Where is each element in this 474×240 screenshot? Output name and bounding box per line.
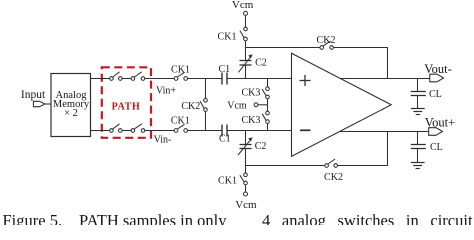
svg-text:Input: Input [21,89,46,101]
svg-text:C1: C1 [219,134,231,145]
wire CK1 to C1 top [188,78,222,80]
wire C2 bottom from Vin- rail [245,131,247,145]
wire CK1 to Vcm terminal [245,185,247,192]
wire C1 to op-amp plus input [227,78,292,80]
wire between PATH S1 and S2 [122,78,131,80]
wire C1 to op-amp minus input [227,130,292,132]
wire Vin+ rail from memory block [91,78,110,80]
switch CK1 (bottom Vcm branch) [218,173,247,187]
switch CK3 (top) [241,87,269,99]
svg-text:× 2: × 2 [64,108,78,119]
op-amp U1 [292,53,392,156]
svg-text:CL: CL [429,89,442,100]
switch PATH S3 [110,124,123,133]
wire CK3 branch lower [267,123,269,130]
wire PATH S2 to switch CK1 top [145,78,174,80]
svg-text:CL: CL [430,142,443,153]
svg-text:Vcm: Vcm [235,199,257,211]
switch CK2 (input shunt) [181,99,207,112]
switch PATH S1 [110,72,123,80]
wire Vout- output [340,78,430,80]
wire CK3 branch upper [267,79,269,87]
wire bottom feedback to output [338,132,388,166]
switch CK2 (top feedback) [317,35,336,49]
wire CK2 shunt upper [205,79,207,99]
wire bottom feedback [246,165,325,167]
svg-text:Vin-: Vin- [154,135,172,146]
figure caption [3,211,473,230]
wire Vout+ output [341,131,429,133]
switch CK1 (Vin- rail) [171,116,190,133]
wire CK1 to C2 top with feedback tee [245,41,247,61]
capacitor C2 variable (bottom) [238,137,266,155]
ground (top CL) [411,96,425,115]
wire C2 to Vin+ rail [245,65,247,79]
svg-text:CK2: CK2 [317,35,336,46]
switch CK1 (top Vcm branch) [218,27,248,42]
Vcm terminal (top) [244,11,248,15]
svg-text:PATH samples in only: PATH samples in only [79,211,227,225]
svg-text:C2: C2 [255,141,267,152]
Vcm terminal (bottom) [244,192,248,196]
capacitor C1 (top) [218,64,230,85]
svg-text:CK2: CK2 [181,101,200,112]
input port Input [21,89,46,107]
switch CK1 (Vin+ rail) [171,64,190,80]
svg-text:CK1: CK1 [171,116,190,127]
wire Vin- rail from memory block [91,130,110,132]
block U0 Analog Memory x2 [51,74,91,137]
wire C2 to CK1 with feedback tee [245,149,247,174]
svg-text:4 analog switches in circuit: 4 analog switches in circuit [262,211,473,225]
svg-text:CK1: CK1 [218,32,237,43]
wire CK2 shunt lower [205,111,207,130]
output port Vout- [424,62,452,82]
svg-text:C1: C1 [218,64,230,75]
svg-text:CK3: CK3 [241,88,260,99]
switch CK2 (bottom feedback) [324,159,343,183]
svg-text:CK1: CK1 [171,64,190,75]
wire CK1 to C1 bottom [188,130,222,132]
svg-text:PATH: PATH [112,102,141,113]
ground (bottom CL) [411,149,425,169]
PATH block dashed outline [102,67,151,138]
svg-text:Vin+: Vin+ [156,86,176,97]
wire top feedback [246,47,320,49]
wire between CK3 switches [267,99,269,111]
capacitor C2 variable (top) [239,54,267,72]
switch CK3 (bottom) [241,111,269,126]
svg-text:CK1: CK1 [218,176,237,187]
svg-text:CK2: CK2 [324,172,343,183]
svg-text:Figure 5.: Figure 5. [3,211,63,225]
svg-text:Vcm: Vcm [232,0,254,11]
wire PATH S4 to switch CK1 bottom [145,130,174,132]
switch PATH S4 [131,124,145,133]
switch PATH S2 [131,72,145,80]
capacitor C1 (bottom) [219,125,231,145]
svg-text:C2: C2 [255,58,267,69]
output port Vout+ [425,116,455,136]
Vcm terminal (middle) [227,100,267,111]
capacitor CL (top) [411,79,442,100]
wire top feedback to output [333,48,387,79]
svg-text:Vcm: Vcm [227,100,247,111]
wire Vcm terminal to CK1 switch [245,15,247,27]
svg-text:Vout-: Vout- [424,62,452,76]
wire input to memory block [45,103,51,105]
capacitor CL (bottom) [411,132,443,153]
wire between PATH S3 and S4 [122,130,131,132]
svg-text:CK3: CK3 [241,115,260,126]
